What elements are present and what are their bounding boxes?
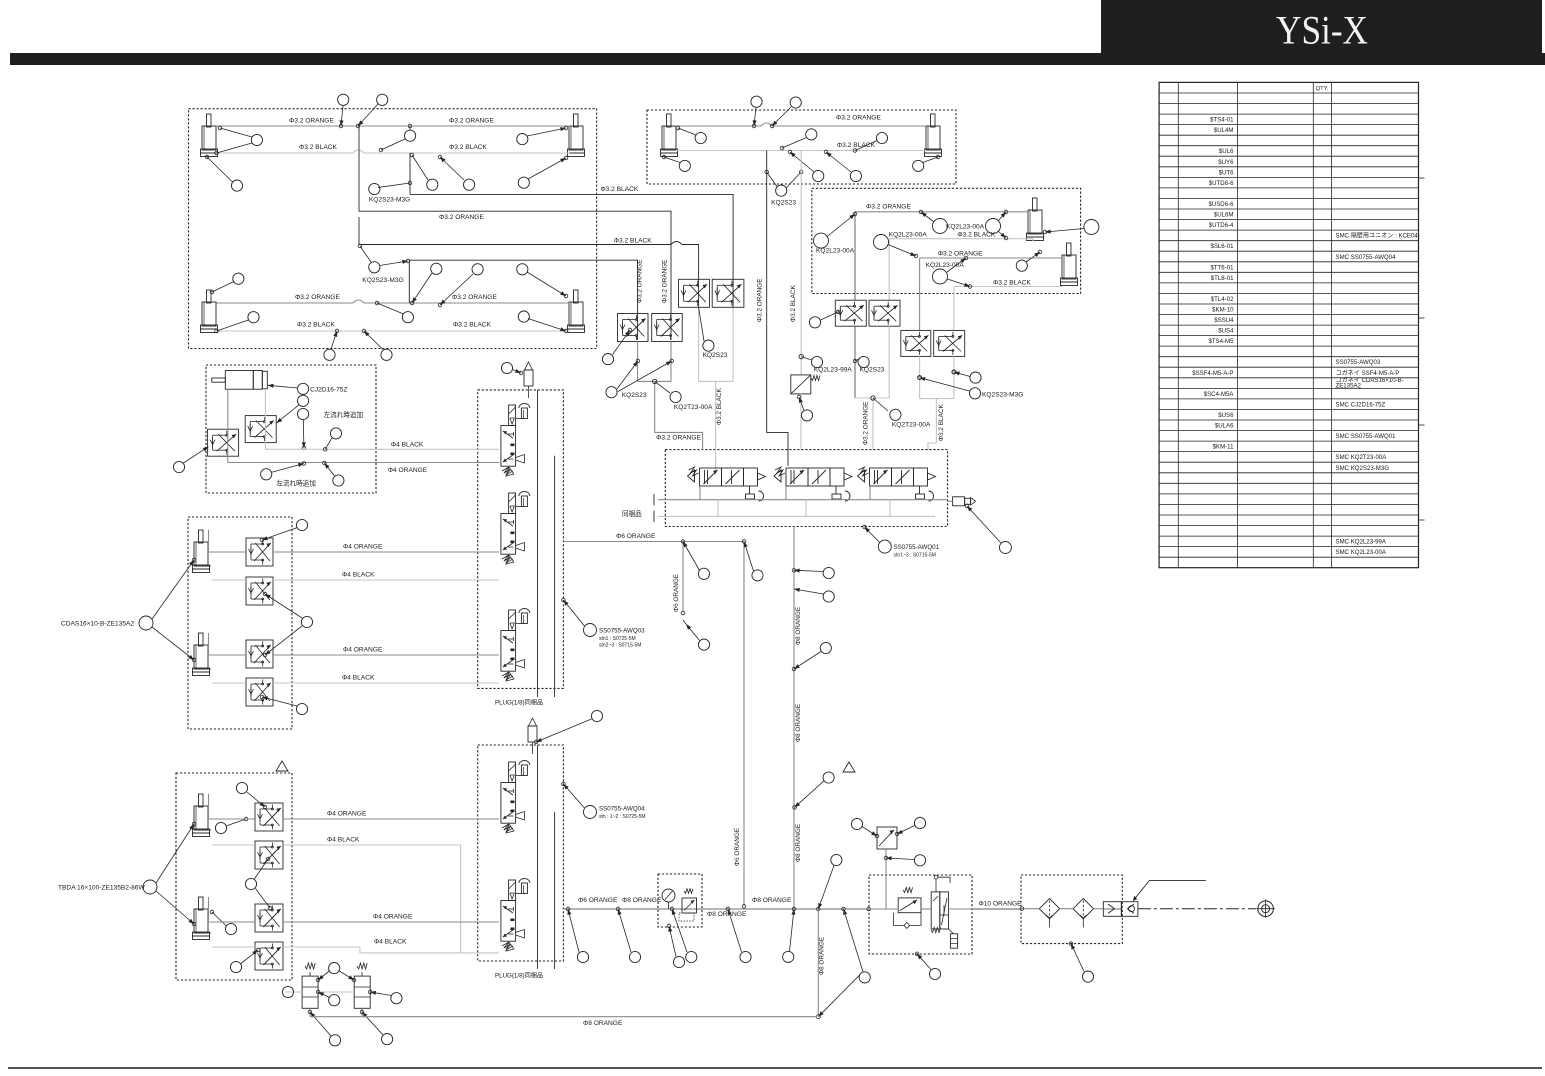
balloon CJ low: [261, 462, 317, 488]
speed controller M pair1 b: [712, 279, 744, 307]
svg-text:Φ4 ORANGE: Φ4 ORANGE: [327, 811, 367, 818]
label phi4 orange CJ: [388, 467, 428, 474]
wire TB cyl1: [209, 794, 256, 845]
svg-text:同梱品: 同梱品: [622, 509, 642, 518]
balloon A row2 right bot: [518, 311, 568, 333]
balloon KQ2L23-00A top: [919, 210, 985, 233]
balloon main b1: [566, 907, 588, 962]
balloon KQ2S23-M3G C2: [918, 376, 1024, 399]
svg-text:PLUG(1/8)同梱品: PLUG(1/8)同梱品: [495, 972, 543, 980]
label phi6 orange: [616, 533, 656, 540]
balloon A below-box 2: [362, 329, 392, 360]
svg-text:左流れ時追加: 左流れ時追加: [276, 479, 316, 488]
bus line orange: [654, 486, 948, 505]
balloon phi8 corner: [818, 909, 870, 1017]
wire phi4 black CD2: [273, 682, 499, 684]
svg-text:$TL8-01: $TL8-01: [1211, 275, 1234, 282]
balloon phi8 d4: [793, 772, 835, 809]
wire dash-dot to supply: [1138, 908, 1256, 910]
balloon A row1 right bot: [518, 156, 568, 188]
balloon takeoff R: [895, 817, 925, 835]
speed controller M pair2 b: [652, 314, 683, 342]
balloon CD top: [260, 519, 307, 541]
wire riser B black x801: [800, 151, 802, 375]
label phi4 black TB2: [374, 939, 407, 946]
label phi8 bottom: [583, 1020, 623, 1027]
svg-text:Φ3.2 BLACK: Φ3.2 BLACK: [453, 322, 491, 329]
filter 2: [1073, 899, 1093, 928]
manifold box SS0755-AWQ03: [478, 390, 564, 689]
wire phi4 orange CD2: [273, 654, 499, 656]
balloon takeoff R2: [884, 855, 925, 866]
svg-text:$UL6: $UL6: [1219, 148, 1234, 155]
svg-text:Φ8 ORANGE: Φ8 ORANGE: [795, 824, 802, 862]
balloon x818 top: [818, 854, 842, 909]
valve takeoff: [877, 827, 897, 909]
svg-text:Φ3.2 BLACK: Φ3.2 BLACK: [790, 285, 797, 322]
balloon CJ b3: [298, 408, 309, 449]
junction KQ2S23 B: [765, 170, 803, 206]
wire phi6 drop x683: [681, 542, 686, 625]
svg-text:$TS4-01: $TS4-01: [1210, 117, 1234, 124]
balloon A row2 left bot: [215, 312, 259, 333]
svg-text:KQ2S23: KQ2S23: [860, 367, 885, 374]
balloon A row1 right top: [517, 126, 568, 145]
balloon KQ2S23 C: [853, 356, 885, 373]
svg-text:Φ3.2 ORANGE: Φ3.2 ORANGE: [656, 434, 701, 441]
balloon TB top: [236, 782, 266, 808]
svg-text:Φ3.2 BLACK: Φ3.2 BLACK: [938, 404, 945, 441]
wire phi4 black TB2: [283, 947, 461, 953]
label phi3.2 black long2: [614, 238, 652, 245]
svg-text:$SSF4-M5-A-P: $SSF4-M5-A-P: [1192, 370, 1233, 377]
balloon A below-box 1: [324, 329, 339, 360]
label riser M x671: [662, 260, 669, 303]
label phi8 vert2: [795, 704, 802, 742]
cylinder B2 (right): [925, 114, 942, 157]
bus valve 2: [774, 467, 852, 501]
balloon phi6 x744 top: [742, 540, 763, 581]
svg-text:Φ4 ORANGE: Φ4 ORANGE: [373, 914, 413, 921]
filter 1: [1039, 899, 1059, 928]
balloon main b5: [783, 909, 796, 963]
balloon KQ2L23-00A low: [926, 256, 972, 288]
junction main dots: [742, 905, 870, 911]
svg-text:CJ2D16-75Z: CJ2D16-75Z: [310, 387, 347, 394]
label TBDA: [58, 885, 145, 892]
cylinder TB1: [193, 794, 212, 837]
wire riser A x359: [358, 126, 360, 245]
bus valve 1: [688, 467, 766, 501]
label phi4 orange CD2: [343, 647, 383, 654]
wire in filter box: [1020, 907, 1103, 911]
wire phi3.2 black B: [676, 150, 926, 152]
balloon FR: [915, 952, 940, 980]
cylinder C1: [1027, 198, 1044, 241]
balloon KQ2L23-00A left: [814, 212, 857, 254]
svg-text:Φ3.2 ORANGE: Φ3.2 ORANGE: [289, 118, 334, 125]
bus line black: [654, 500, 935, 522]
label KQ2S23 M right: [703, 352, 728, 359]
wire bus M left: [638, 381, 703, 450]
svg-text:KQ2L23-99A: KQ2L23-99A: [814, 367, 853, 374]
label riser black C: [938, 404, 945, 441]
balloon A row1 cyl1 bottom: [215, 143, 252, 155]
cylinder C2: [1061, 243, 1078, 286]
svg-text:Φ8 ORANGE: Φ8 ORANGE: [795, 607, 802, 645]
label phi3.2 orange long1: [439, 214, 484, 221]
cylinder TB2: [193, 897, 212, 940]
balloon above AWQ03: [501, 362, 522, 374]
svg-text:KQ2S23: KQ2S23: [622, 392, 647, 399]
svg-text:SS0755-AWQ03: SS0755-AWQ03: [599, 628, 645, 635]
svg-text:Φ4 BLACK: Φ4 BLACK: [374, 939, 407, 946]
svg-text:Φ3.2 BLACK: Φ3.2 BLACK: [297, 322, 335, 329]
svg-text:KQ2L23-00A: KQ2L23-00A: [816, 248, 855, 255]
svg-text:左流れ時追加: 左流れ時追加: [324, 410, 364, 419]
wire phi3.2 black A row1: [217, 150, 570, 153]
svg-text:$USD6-6: $USD6-6: [1208, 201, 1234, 208]
balloon C right mid: [1016, 250, 1042, 271]
junction KQ2T23-00A C: [871, 396, 931, 429]
svg-text:Φ3.2 ORANGE: Φ3.2 ORANGE: [756, 279, 763, 322]
svg-text:Φ3.2 ORANGE: Φ3.2 ORANGE: [863, 402, 870, 445]
wire phi3.2 black A row2: [217, 330, 570, 332]
bus valve 3: [858, 467, 936, 501]
svg-text:KQ2L23-00A: KQ2L23-00A: [946, 224, 985, 231]
svg-text:Φ3.2 ORANGE: Φ3.2 ORANGE: [636, 260, 643, 303]
label phi3.2 black C1: [957, 232, 995, 239]
balloon vb low1: [308, 1010, 340, 1046]
wire bus C pair1: [855, 398, 889, 450]
label riser orange C: [863, 402, 870, 445]
svg-text:$UL4M: $UL4M: [1214, 127, 1234, 134]
speed controller CD1: [246, 538, 273, 566]
speed controller C pair2 a: [901, 330, 931, 356]
wire riser C1a: [854, 326, 856, 398]
svg-text:Φ3.2 ORANGE: Φ3.2 ORANGE: [449, 118, 494, 125]
balloon TB mid2: [245, 857, 271, 910]
wire phi3.2 orange A to x671: [359, 211, 671, 340]
balloon C outside right: [1043, 220, 1099, 235]
svg-text:Φ4 ORANGE: Φ4 ORANGE: [388, 467, 428, 474]
svg-text:$SL6-01: $SL6-01: [1210, 243, 1234, 250]
svg-text:$KM-10: $KM-10: [1212, 307, 1234, 314]
speed controller C pair2 b: [934, 330, 965, 356]
svg-text:$KM-11: $KM-11: [1213, 444, 1234, 451]
manifold AWQ03 rails: [538, 390, 555, 697]
balloon B mid1: [780, 129, 817, 150]
svg-text:$SSU4: $SSU4: [1214, 317, 1234, 324]
label phi4 black CJ: [391, 441, 424, 448]
svg-text:KQ2S23-M3G: KQ2S23-M3G: [369, 197, 410, 204]
svg-text:SMC CJ2D16-75Z: SMC CJ2D16-75Z: [1336, 402, 1386, 409]
svg-text:コガネイ SSF4-M5-A-P: コガネイ SSF4-M5-A-P: [1336, 369, 1400, 377]
speed controller CJ b: [208, 429, 239, 456]
svg-text:YSi-X: YSi-X: [1276, 8, 1368, 53]
label riser M x637: [636, 260, 643, 303]
balloon vb low2: [360, 1010, 393, 1044]
svg-text:KQ2S23: KQ2S23: [703, 352, 728, 359]
balloon vb left: [282, 986, 293, 997]
svg-text:Φ8 ORANGE: Φ8 ORANGE: [795, 704, 802, 742]
label phi3.2 black B: [837, 142, 875, 149]
wire phi3.2 orange C1: [855, 212, 1028, 300]
speed controller TB1: [255, 803, 283, 831]
svg-text:stn : 1~2 : S0725-5M: stn : 1~2 : S0725-5M: [599, 814, 646, 820]
balloon takeoff L: [851, 818, 878, 837]
manifold AWQ03 stations: [501, 404, 530, 682]
wire phi8 drop x794: [793, 527, 795, 910]
balloon CJ low2: [323, 461, 344, 486]
svg-text:Φ10 ORANGE: Φ10 ORANGE: [979, 901, 1023, 908]
balloon KQ2L23-00A top2: [986, 210, 1008, 240]
wire phi3.2 orange C2: [920, 258, 1062, 330]
wire phi3.2 orange A row1: [217, 125, 570, 127]
svg-text:Φ3.2 BLACK: Φ3.2 BLACK: [716, 388, 723, 425]
label phi8 main2: [707, 911, 747, 918]
balloon phi6 x683 top: [681, 540, 709, 580]
balloon vb right: [369, 990, 403, 1004]
cylinder A4 (bottom-right): [568, 290, 585, 333]
svg-text:KQ2L23-00A: KQ2L23-00A: [926, 262, 965, 269]
wire phi3.2 black C2: [954, 287, 1062, 331]
manifold AWQ04 stations: [501, 761, 530, 952]
label riser B black: [790, 285, 797, 322]
svg-text:Φ3.2 BLACK: Φ3.2 BLACK: [993, 280, 1031, 287]
svg-text:SMC 隔壁用ユニオン : KCE04-: SMC 隔壁用ユニオン : KCE04-: [1336, 232, 1420, 240]
wire phi4 orange CD1: [273, 551, 499, 553]
junction dots C risers: [918, 370, 956, 380]
label phi10 main: [979, 901, 1023, 908]
supply port symbol: [1256, 900, 1274, 918]
wire phi4 black CJ: [265, 448, 499, 450]
balloon phi6 x683: [686, 624, 710, 650]
svg-text:Φ4 ORANGE: Φ4 ORANGE: [343, 544, 383, 551]
label phi3.2 orange M: [656, 434, 701, 441]
svg-text:SMC KQ2L23-99A: SMC KQ2L23-99A: [1336, 539, 1387, 546]
speed controller TB3: [255, 904, 283, 932]
label phi4 black CD1: [342, 572, 375, 579]
balloon AWQ03 top right: [534, 710, 602, 743]
label phi6 vert2: [734, 828, 741, 866]
label phi3.2 orange A row2 R: [452, 294, 497, 301]
wire main phi6-8-10: [563, 908, 1122, 910]
label phi3.2 black C2: [993, 280, 1031, 287]
wire phi3.2 orange A row2: [217, 300, 570, 303]
speed controller CD2: [246, 577, 273, 605]
group box A (top-left cylinders): [189, 109, 597, 349]
balloon C spd left: [809, 310, 839, 328]
svg-text:Φ3.2 BLACK: Φ3.2 BLACK: [837, 142, 875, 149]
wire phi3.2 orange B: [676, 123, 926, 126]
svg-text:Φ3.2 BLACK: Φ3.2 BLACK: [449, 144, 487, 151]
svg-text:Φ4 BLACK: Φ4 BLACK: [391, 441, 424, 448]
balloon CDAS: [139, 558, 196, 662]
balloon AWQ01: [863, 525, 940, 558]
svg-text:QTY.: QTY.: [1316, 86, 1329, 92]
label phi3.2 black M: [716, 388, 723, 425]
svg-text:Φ3.2 BLACK: Φ3.2 BLACK: [614, 238, 652, 245]
svg-text:KQ2S23-M3G: KQ2S23-M3G: [982, 391, 1023, 398]
label PLUG AWQ03: [495, 699, 543, 707]
balloon B low1: [788, 150, 824, 181]
label phi8 vert3: [795, 824, 802, 862]
label phi3.2 orange C2: [938, 251, 983, 258]
svg-text:Φ3.2 ORANGE: Φ3.2 ORANGE: [836, 115, 881, 122]
svg-text:Φ8 ORANGE: Φ8 ORANGE: [752, 897, 792, 904]
wire phi3.2 orange A to x637: [409, 260, 637, 340]
balloon A row2 mid2: [438, 264, 483, 307]
wire phi3.2 black A to x733: [410, 194, 733, 381]
balloon TB low: [230, 948, 259, 972]
wire phi3.2 black A to x698: [359, 242, 699, 382]
svg-text:Φ3.2 BLACK: Φ3.2 BLACK: [600, 186, 638, 193]
svg-text:Φ8 ORANGE: Φ8 ORANGE: [583, 1020, 623, 1027]
label riser B orange: [756, 279, 763, 322]
balloon A row2 right: [517, 264, 568, 298]
fitting above AWQ04: [528, 718, 537, 754]
svg-text:stn1 : S0725-5M: stn1 : S0725-5M: [599, 636, 636, 642]
svg-text:Φ3.2 ORANGE: Φ3.2 ORANGE: [439, 214, 484, 221]
label phi8 main1: [622, 897, 662, 904]
gauge in box: [662, 889, 697, 921]
balloon KQ2L23-00A mid: [874, 232, 928, 258]
parts table text: [1192, 86, 1424, 556]
balloon A above-box 1: [338, 94, 349, 128]
label phi3.2 black A row2 R: [453, 322, 491, 329]
wire riser M x671 low: [670, 342, 672, 382]
wire valve link: [285, 991, 354, 993]
balloon vb mid: [316, 963, 356, 982]
balloon A row2 mid1: [410, 263, 442, 305]
svg-text:CDAS16×10-B-ZE135A2: CDAS16×10-B-ZE135A2: [61, 621, 134, 628]
wire CJ risers: [228, 389, 266, 462]
label hidari 1: [324, 410, 364, 419]
wire riser B orange x767: [767, 151, 788, 467]
manifold AWQ04 rails: [538, 745, 555, 969]
balloon B low2: [824, 150, 861, 181]
group box CJ2D16: [206, 365, 376, 493]
balloon filter: [1069, 942, 1093, 982]
wire phi8 bottom: [310, 1016, 817, 1018]
group box TBDA16: [176, 773, 292, 980]
svg-text:$TS4-M5: $TS4-M5: [1208, 338, 1234, 345]
svg-text:SS0755-AWQ03: SS0755-AWQ03: [1336, 359, 1381, 366]
wire riser C2b: [953, 356, 955, 398]
balloon CJ left2: [173, 447, 208, 473]
label phi3.2 black A row1 L: [299, 144, 337, 151]
svg-text:Φ4 BLACK: Φ4 BLACK: [342, 572, 375, 579]
wire riser A x410: [408, 153, 411, 303]
coupler right of bus: [948, 497, 976, 506]
junction CJ black: [323, 428, 341, 451]
wire riser C1b: [888, 326, 890, 398]
group box B (top-middle cylinders): [647, 110, 956, 184]
wire valve drops: [310, 1008, 362, 1016]
balloon B left: [676, 126, 706, 143]
wire bus C pair2: [920, 399, 954, 450]
svg-text:Φ3.2 BLACK: Φ3.2 BLACK: [299, 144, 337, 151]
balloon under small valve: [797, 395, 812, 421]
label phi3.2 black A row2 L: [297, 322, 335, 329]
parts table grid: [1159, 82, 1418, 567]
label included: [622, 509, 642, 518]
svg-text:KQ2S23: KQ2S23: [771, 200, 796, 207]
svg-text:KQ2L23-00A: KQ2L23-00A: [889, 232, 928, 239]
speed controller TB4: [255, 942, 283, 970]
svg-text:SMC KQ2T23-00A: SMC KQ2T23-00A: [1336, 454, 1388, 461]
wire phi6 orange: [563, 541, 744, 543]
balloon A row1 mid3: [438, 155, 475, 190]
svg-text:SMC KQ2S23-M3G: SMC KQ2S23-M3G: [1336, 465, 1390, 472]
svg-text:$SC4-M5A: $SC4-M5A: [1204, 391, 1235, 398]
svg-text:Φ8 ORANGE: Φ8 ORANGE: [819, 937, 826, 975]
fitting above AWQ03: [524, 362, 533, 398]
label phi4 orange TB2: [373, 914, 413, 921]
balloon AWQ04: [562, 782, 646, 820]
wire riser M x637 low: [637, 342, 639, 382]
balloon phi8 d3: [792, 642, 831, 670]
label phi3.2 orange A row2 L: [295, 294, 340, 301]
wire phi3.2 black C1: [889, 239, 1033, 300]
balloon B left low: [662, 155, 690, 171]
title YSi-X: [1276, 8, 1368, 53]
svg-text:SS0755-AWQ04: SS0755-AWQ04: [599, 806, 645, 813]
balloon B top2: [770, 97, 801, 128]
wire phi4 black CD1: [273, 579, 499, 581]
label phi3.2 orange A row1 R: [449, 118, 494, 125]
balloon B mid2: [853, 132, 887, 152]
speed controller C pair1 b: [869, 300, 900, 326]
balloon KQ2S23-M3G C: [952, 370, 981, 383]
balloon main b4: [726, 907, 751, 962]
svg-text:TBDA 16×100-ZE135B2-86W: TBDA 16×100-ZE135B2-86W: [58, 885, 145, 892]
label phi8 riser: [819, 937, 826, 975]
label phi3.2 orange B: [836, 115, 881, 122]
svg-text:SS0755-AWQ01: SS0755-AWQ01: [894, 544, 940, 551]
svg-text:ZE135A2: ZE135A2: [1336, 383, 1362, 390]
speed controller CD3: [246, 640, 273, 668]
gauge box: [658, 874, 702, 927]
svg-text:Φ3.2 ORANGE: Φ3.2 ORANGE: [938, 251, 983, 258]
svg-text:KQ2T23-00A: KQ2T23-00A: [674, 404, 713, 411]
filter unit box: [1021, 875, 1122, 944]
wire CD cyl1: [209, 530, 247, 580]
balloon TB mid1: [215, 817, 247, 833]
svg-text:SMC SS0755-AWQ04: SMC SS0755-AWQ04: [1336, 254, 1397, 261]
balloon CJ2D16 label: [268, 383, 348, 394]
regulator in FR: [869, 887, 931, 928]
wire TB cyl2: [209, 897, 256, 947]
svg-text:Φ6 ORANGE: Φ6 ORANGE: [673, 574, 680, 612]
balloon A row1 cyl1 top: [218, 126, 262, 145]
svg-text:Φ3.2 ORANGE: Φ3.2 ORANGE: [452, 294, 497, 301]
speed controller TB2: [255, 841, 283, 869]
bus box SS0755-AWQ01 (included): [665, 450, 947, 527]
triangle marker TBDA: [276, 761, 288, 771]
cylinder A3 (bottom-left): [201, 290, 218, 333]
svg-text:$TT6-01: $TT6-01: [1210, 264, 1234, 271]
balloon A row1 left lower: [205, 155, 242, 191]
balloon B top1: [751, 96, 762, 128]
FR unit box: [869, 875, 972, 954]
balloon A row1 mid: [379, 124, 416, 152]
speed controller M pair2 a: [618, 314, 649, 342]
svg-text:Φ4 BLACK: Φ4 BLACK: [342, 675, 375, 682]
valve KQ2L23-99A small: [791, 375, 820, 450]
junction KQ2T23-00A M: [653, 379, 713, 411]
